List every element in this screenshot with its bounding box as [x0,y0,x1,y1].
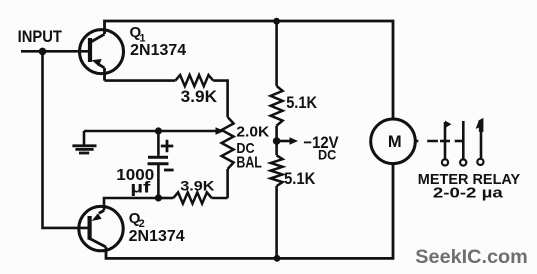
svg-text:2N1374: 2N1374 [130,42,186,59]
wire Q1 emitter to R1 [105,79,176,82]
svg-text:2N1374: 2N1374 [129,228,185,245]
resistor R3 5.1K top [271,86,283,126]
wire bottom branch [104,198,158,211]
wire input [21,50,89,53]
svg-text:SeekIC.com: SeekIC.com [415,246,528,268]
junction dot top rail [273,18,280,25]
wire pot bottom [226,169,229,198]
svg-text:µf: µf [130,179,151,196]
svg-text:3.9K: 3.9K [181,87,218,106]
svg-text:DC: DC [318,147,336,163]
relay contact middle [455,140,464,143]
junction dot -12V node [273,137,281,145]
node -12V arrow [277,140,292,143]
svg-text:5.1K: 5.1K [286,93,317,112]
relay dashed link [415,140,438,143]
svg-text:3.9K: 3.9K [180,178,214,194]
wire left vertical [43,51,89,228]
relay contact right [480,131,483,158]
pot wiper arrow [158,130,216,133]
svg-text:BAL: BAL [236,154,262,171]
resistor R2 3.9K bottom [173,192,211,203]
svg-text:INPUT: INPUT [18,28,62,46]
potentiometer R5 2.0K [222,117,234,169]
svg-text:2.0K: 2.0K [236,123,269,140]
meter M1 [371,119,416,164]
svg-text:5.1K: 5.1K [284,169,316,188]
svg-text:2-0-2 µa: 2-0-2 µa [433,185,504,202]
junction dot input [39,48,47,56]
transistor Q2 [79,206,123,250]
wire middle vertical [275,21,278,86]
wire [213,81,227,117]
wire ground net [84,130,158,133]
wire top rail [105,21,394,119]
cap plus sign [161,140,174,153]
wire [275,186,278,258]
wire [275,126,278,156]
junction dot bottom rail [274,255,281,262]
resistor R1 3.9K top [175,75,213,86]
capacitor C1 1000uf [157,131,160,156]
relay contact left (pointer) [440,140,450,143]
cap minus sign [164,169,174,172]
ground [83,131,86,146]
resistor R4 5.1K bottom [271,155,283,186]
transistor Q1 [80,30,124,74]
wire [212,197,228,200]
svg-text:M: M [388,133,402,151]
wire bottom rail [106,164,393,259]
junction dot cap bottom [155,194,162,201]
junction dot cap top [155,127,162,134]
